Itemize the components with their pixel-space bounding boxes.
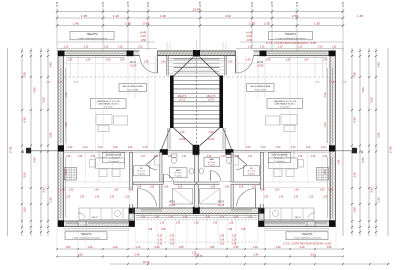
exterior wall top (58, 51, 336, 56)
svg-text:1.35: 1.35 (148, 229, 153, 231)
window line left wall lower (60, 157, 62, 218)
svg-text:3.50: 3.50 (65, 169, 68, 174)
kitchen partition right (260, 153, 263, 209)
kitchen door gap right (260, 190, 264, 205)
exterior step lines bottom right (264, 228, 329, 230)
svg-text:BAIE: BAIE (209, 158, 214, 161)
bath door arc right (210, 171, 220, 181)
svg-text:1.20: 1.20 (294, 197, 299, 199)
svg-text:1.20: 1.20 (125, 197, 130, 199)
dimension line left col 4 (40, 48, 42, 236)
svg-text:P: repartizat: P: repartizat (275, 160, 285, 163)
svg-text:0.90: 0.90 (155, 217, 160, 219)
svg-text:0.30: 0.30 (170, 236, 175, 238)
sink right (199, 168, 203, 174)
svg-text:1.35: 1.35 (176, 223, 181, 225)
svg-text:1.15: 1.15 (278, 47, 283, 49)
svg-text:1.35: 1.35 (160, 223, 165, 225)
svg-text:A: 1.50 m: A: 1.50 m (248, 170, 256, 173)
svg-text:1.10: 1.10 (113, 14, 119, 18)
kitchen dim line left b (64, 187, 133, 189)
wc door arc right (236, 165, 247, 170)
svg-text:1.15: 1.15 (64, 47, 69, 49)
red dim clusters bottom center (158, 236, 237, 246)
wc door leaf right (236, 156, 247, 165)
svg-text:Pasul: 17x88: Pasul: 17x88 (255, 90, 266, 92)
svg-text:4.40: 4.40 (225, 14, 231, 18)
svg-text:1.47: 1.47 (248, 156, 253, 158)
hatched pantry square right (317, 168, 329, 181)
svg-text:1.40: 1.40 (161, 62, 166, 64)
svg-text:+0.45: +0.45 (246, 31, 253, 35)
sink left (189, 168, 193, 174)
svg-text:0.90: 0.90 (206, 217, 211, 219)
dimension line left col 5 (47, 48, 49, 236)
dashed terrace line center (136, 241, 257, 243)
parapet line left living (64, 63, 167, 65)
svg-text:1.40: 1.40 (113, 245, 119, 249)
svg-text:0.90: 0.90 (220, 217, 225, 219)
bath bottom wall left (133, 182, 196, 185)
svg-text:1.40: 1.40 (276, 245, 282, 249)
svg-text:WC: WC (140, 168, 144, 170)
svg-text:0.95: 0.95 (234, 245, 240, 249)
red rotated numbers right margin (338, 62, 393, 213)
vestibule side wall right (225, 56, 227, 76)
camera de zi box right (267, 99, 303, 109)
svg-text:P: parchet: P: parchet (104, 106, 113, 109)
stair bay wall left lower (167, 128, 169, 150)
svg-text:BALUSTRADA SCARA: BALUSTRADA SCARA (250, 85, 270, 88)
svg-text:2.85: 2.85 (49, 132, 53, 138)
svg-text:0.60: 0.60 (143, 21, 149, 25)
dimension line right col 2 (351, 48, 353, 236)
svg-text:1.15: 1.15 (318, 47, 323, 49)
svg-text:1.45: 1.45 (73, 21, 79, 25)
svg-text:0.30: 0.30 (232, 240, 237, 242)
svg-text:1.90: 1.90 (320, 189, 325, 191)
interior beam lower edge (64, 152, 329, 154)
wc label box left (134, 166, 150, 176)
section marker left (26, 148, 31, 154)
svg-text:1.05: 1.05 (211, 186, 216, 188)
svg-text:1.20: 1.20 (323, 197, 328, 199)
svg-text:1.47: 1.47 (182, 156, 187, 158)
dining chairs right (274, 151, 304, 177)
svg-text:1.15: 1.15 (298, 47, 303, 49)
svg-text:0.30: 0.30 (220, 244, 225, 246)
exterior wall bottom left (58, 221, 135, 227)
svg-text:0.90: 0.90 (183, 217, 188, 219)
svg-text:1.30: 1.30 (314, 21, 320, 25)
svg-text:1.20: 1.20 (143, 147, 148, 149)
svg-text:1.20: 1.20 (95, 197, 100, 199)
svg-text:+0.45: +0.45 (140, 31, 147, 35)
svg-text:0.30: 0.30 (158, 240, 163, 242)
svg-text:1.40: 1.40 (323, 60, 328, 62)
svg-text:x27,5: x27,5 (208, 99, 215, 102)
balustrada scara box right (247, 84, 275, 92)
svg-text:1.50: 1.50 (327, 245, 333, 249)
svg-text:2.90: 2.90 (23, 72, 27, 78)
svg-text:C.T.S. | COTA TROTUAR INCINTA: C.T.S. | COTA TROTUAR INCINTA = -0.50 (266, 41, 316, 45)
svg-text:1.40: 1.40 (300, 245, 306, 249)
red numbers bottom row2 (78, 253, 317, 257)
svg-text:3.50: 3.50 (324, 169, 327, 174)
svg-text:0.95: 0.95 (155, 245, 161, 249)
svg-text:1.20: 1.20 (66, 197, 71, 199)
stair outer diagonal lower left (162, 128, 171, 149)
exterior step lines bottom left (64, 228, 129, 230)
vestibule side wall left (166, 56, 168, 76)
svg-text:CAMERA DE ZI, LOC DE: CAMERA DE ZI, LOC DE (97, 100, 120, 103)
baie label box right (204, 157, 220, 167)
svg-text:3.50: 3.50 (23, 172, 27, 178)
svg-text:BALUSTRADA SCARA: BALUSTRADA SCARA (123, 85, 143, 88)
svg-text:1.20: 1.20 (309, 197, 314, 199)
svg-text:1.47: 1.47 (141, 156, 146, 158)
extension lines top bay (167, 40, 226, 51)
svg-text:1.60: 1.60 (23, 207, 27, 213)
column C2 (127, 51, 134, 57)
svg-text:1.35: 1.35 (229, 223, 234, 225)
column C1 (58, 51, 65, 57)
svg-text:1.20: 1.20 (321, 147, 326, 149)
toilet right (226, 154, 232, 157)
stair cut diagonal lower left (174, 128, 193, 146)
svg-text:4.30: 4.30 (65, 122, 68, 127)
column C17 (225, 149, 233, 155)
svg-text:1.90: 1.90 (60, 189, 65, 191)
svg-text:13.45: 13.45 (193, 7, 201, 11)
kitchen dim line right b (260, 187, 329, 189)
column C7 (329, 145, 335, 151)
zona bucatarie box right (269, 152, 291, 163)
svg-text:1.15: 1.15 (248, 47, 253, 49)
svg-text:17.45: 17.45 (389, 146, 393, 153)
column C13 (259, 221, 265, 227)
column C3 (193, 50, 200, 57)
svg-text:x27,5: x27,5 (179, 99, 186, 102)
svg-text:1.20: 1.20 (323, 156, 328, 158)
kitchen dim line right a (264, 181, 329, 183)
svg-text:CAMERA DE ZI, LOC DE: CAMERA DE ZI, LOC DE (273, 100, 296, 103)
svg-text:1.90: 1.90 (275, 189, 280, 191)
svg-text:1.90: 1.90 (260, 189, 265, 191)
svg-text:4.05: 4.05 (361, 87, 365, 93)
svg-text:2.55: 2.55 (292, 14, 298, 18)
svg-text:+0.05: +0.05 (130, 64, 137, 68)
svg-text:1.35: 1.35 (161, 229, 166, 231)
red numbers above section beam (68, 147, 326, 149)
dining table left (96, 158, 125, 169)
red dim row under top wall (68, 60, 328, 64)
bath bottom wall right (197, 182, 260, 185)
exterior step lines center (136, 215, 257, 217)
svg-text:1.40: 1.40 (286, 60, 291, 62)
svg-text:19.45: 19.45 (143, 260, 150, 264)
extension verticals bottom (57, 215, 336, 249)
svg-text:4.95: 4.95 (338, 159, 341, 164)
svg-text:+0.05: +0.05 (257, 64, 264, 68)
svg-text:1.35: 1.35 (249, 21, 255, 25)
svg-text:0.30: 0.30 (170, 244, 175, 246)
window line right wall lower (332, 157, 334, 218)
hatched porch band top center (158, 51, 236, 56)
dashed step line center (136, 219, 257, 221)
svg-text:A: 1.50 m: A: 1.50 m (138, 170, 146, 173)
svg-text:2.90: 2.90 (353, 72, 357, 78)
svg-text:4.30: 4.30 (65, 92, 68, 97)
svg-text:-0.10: -0.10 (246, 34, 252, 38)
svg-text:0.30: 0.30 (158, 244, 163, 246)
svg-text:1.90: 1.90 (94, 189, 99, 191)
svg-text:1.40: 1.40 (88, 245, 94, 249)
kitchen door gap left (129, 190, 133, 205)
kitchen counter left (79, 208, 133, 220)
svg-text:1.20: 1.20 (91, 156, 96, 158)
svg-text:2.35: 2.35 (377, 197, 381, 203)
svg-text:1.75: 1.75 (192, 253, 197, 255)
svg-text:TREAPTA: TREAPTA (81, 233, 92, 236)
closet right of party wall (200, 189, 220, 205)
column C14 (193, 207, 200, 214)
window line left wall (60, 68, 62, 143)
svg-text:1.40: 1.40 (304, 60, 309, 62)
svg-text:8.55: 8.55 (42, 97, 46, 103)
kitchen door leaf right (254, 189, 256, 208)
svg-text:0.90: 0.90 (234, 217, 239, 219)
svg-text:1.35: 1.35 (194, 223, 199, 225)
red rotated dims inside living (65, 92, 327, 127)
svg-text:1.05: 1.05 (239, 186, 244, 188)
column C16 (160, 149, 168, 155)
wc sink right (233, 156, 238, 165)
svg-text:-0.50: -0.50 (246, 38, 252, 42)
svg-text:P: gresie: P: gresie (138, 174, 145, 176)
svg-text:1.40: 1.40 (228, 62, 233, 64)
red dim rows terrace (148, 223, 246, 231)
svg-text:C.T.S. | COTA TROTUAR INCINTA: C.T.S. | COTA TROTUAR INCINTA = -0.50 (283, 242, 332, 246)
svg-text:+0.05: +0.05 (169, 203, 176, 207)
svg-text:1.35: 1.35 (81, 14, 87, 18)
svg-text:1.40: 1.40 (246, 60, 251, 62)
dining chairs left (90, 151, 121, 177)
bath door gap left (163, 182, 175, 185)
dimension line left col 1 (7, 48, 9, 236)
svg-text:1.20: 1.20 (78, 156, 83, 158)
section marker right (352, 148, 357, 154)
entrance door right arc (236, 56, 254, 74)
dimension line left col 3 (30, 48, 32, 236)
kitchen extension verticals (71, 153, 322, 183)
svg-text:BAIE: BAIE (176, 169, 181, 172)
bath door leaf left (163, 174, 165, 185)
svg-text:1.45: 1.45 (377, 62, 381, 68)
red dim row bath top (65, 156, 328, 174)
stair bay wall right lower (224, 128, 226, 150)
svg-text:3.50: 3.50 (78, 253, 84, 257)
window sill top wall right (268, 56, 327, 58)
parapet line right living (226, 63, 329, 65)
bath door leaf right (209, 171, 211, 181)
svg-text:0.30: 0.30 (170, 240, 175, 242)
window sill top wall left (66, 56, 125, 58)
svg-text:1.05: 1.05 (252, 186, 257, 188)
tick marks left dimension cols (21, 50, 49, 233)
svg-text:4.30: 4.30 (324, 92, 327, 97)
kitchen door arc right (236, 189, 255, 207)
entrance door left arc (140, 56, 158, 74)
dashed beam line left living (64, 76, 170, 78)
dining table right (269, 158, 298, 169)
svg-text:12.35: 12.35 (297, 1, 299, 7)
kitchen outside door left (77, 221, 79, 227)
svg-text:1.15: 1.15 (104, 47, 109, 49)
door opening top left (140, 50, 158, 56)
svg-text:A: 3.96 m: A: 3.96 m (174, 172, 182, 175)
dimension line left col 2 (21, 48, 23, 236)
window line right wall (332, 68, 334, 143)
sofa left unit (96, 115, 112, 125)
stair outer diagonal lower right (223, 128, 232, 149)
TREAPTA label box bottom left (65, 232, 107, 240)
dimension line top row 1 (57, 11, 343, 13)
baie label box left (170, 168, 188, 178)
svg-text:TREAPTA: TREAPTA (285, 33, 297, 36)
svg-text:1.10: 1.10 (136, 245, 142, 249)
stair landing lines (167, 57, 226, 59)
svg-text:1.20: 1.20 (279, 197, 284, 199)
svg-text:1.20: 1.20 (311, 156, 316, 158)
red numbers above top wall (64, 47, 337, 49)
dimension line top row 3 (57, 25, 343, 27)
svg-text:3.95: 3.95 (370, 187, 374, 193)
svg-text:7. trepte antiderapante de ext: 7. trepte antiderapante de exterior (293, 237, 322, 240)
red dimension numbers top row3 (73, 21, 320, 25)
column C9 (329, 220, 335, 226)
kitchen counter right (260, 208, 314, 220)
line under treapta boxes (57, 41, 155, 43)
svg-text:-0.50: -0.50 (140, 38, 146, 42)
svg-text:1.20: 1.20 (110, 197, 115, 199)
svg-text:12.35: 12.35 (148, 1, 150, 7)
svg-text:TREAPTA: TREAPTA (86, 33, 98, 36)
svg-text:1.60: 1.60 (353, 207, 357, 213)
interior extension lines living (67, 56, 327, 150)
svg-text:17.45: 17.45 (9, 146, 13, 153)
svg-text:0.30: 0.30 (158, 236, 163, 238)
dimension line right col 1 (342, 48, 344, 236)
svg-text:1.40: 1.40 (144, 62, 149, 64)
exterior wall left (58, 51, 64, 227)
svg-text:1.40: 1.40 (125, 21, 131, 25)
svg-text:1.15: 1.15 (84, 47, 89, 49)
exterior wall step right (259, 208, 265, 227)
red rotated numbers left margin (9, 62, 53, 213)
svg-text:8.55: 8.55 (370, 97, 374, 103)
svg-text:12.35: 12.35 (57, 1, 59, 7)
stair center divider (196, 57, 198, 149)
wc wall vertical left (160, 153, 162, 209)
svg-text:4.30: 4.30 (324, 122, 327, 127)
camera de zi box left (91, 99, 127, 109)
column C6 (58, 145, 64, 151)
svg-text:1.40: 1.40 (120, 60, 125, 62)
window bottom center wall (141, 208, 162, 210)
svg-text:4.95: 4.95 (361, 157, 365, 163)
svg-text:4.30: 4.30 (353, 117, 357, 123)
svg-text:1.20: 1.20 (298, 156, 303, 158)
stair cut diagonal lower right (200, 128, 219, 146)
dimension line bottom row 3 (110, 263, 390, 265)
svg-text:1.20: 1.20 (180, 131, 185, 134)
TREAPTA label box left (70, 32, 114, 40)
svg-text:1.47: 1.47 (235, 156, 240, 158)
svg-text:AP 02: AP 02 (92, 216, 98, 219)
kitchen partition left (130, 153, 133, 209)
exterior wall step left (129, 208, 135, 227)
svg-text:1.15: 1.15 (138, 47, 143, 49)
kitchen door arc left (138, 189, 157, 207)
exterior wall bottom right (259, 221, 336, 227)
svg-text:12.35: 12.35 (252, 1, 254, 7)
svg-text:2.40: 2.40 (254, 253, 260, 257)
dimension line above top wall (57, 48, 157, 50)
svg-text:1.20: 1.20 (68, 147, 73, 149)
red dim row kitchen (60, 189, 333, 191)
section line A-A (28, 150, 357, 152)
svg-text:Pasul: 17x88: Pasul: 17x88 (127, 90, 138, 92)
wc door leaf left (147, 156, 158, 165)
dimension line right col 5 (375, 48, 377, 236)
svg-text:1.90: 1.90 (294, 189, 299, 191)
TREAPTA label box bottom right (286, 232, 328, 240)
svg-text:3.50: 3.50 (311, 253, 317, 257)
svg-text:1.90: 1.90 (69, 189, 74, 191)
svg-text:1.20: 1.20 (83, 147, 88, 149)
stair shaft wall right (219, 76, 223, 129)
svg-text:-0.10: -0.10 (140, 34, 146, 38)
svg-text:1.15: 1.15 (260, 47, 265, 49)
svg-text:WC: WC (250, 168, 254, 170)
bath door gap right (220, 182, 231, 185)
svg-text:12.35: 12.35 (343, 1, 345, 7)
svg-text:3.95: 3.95 (42, 187, 46, 193)
kitchen dim line left a (64, 181, 129, 183)
column C8 (58, 220, 64, 226)
tick marks bottom rows (56, 248, 389, 265)
svg-text:1.47: 1.47 (154, 156, 159, 158)
closet left of party wall (173, 189, 193, 205)
svg-text:1.40: 1.40 (106, 60, 111, 62)
wc door arc left (146, 165, 157, 170)
zona bucatarie box left (103, 152, 125, 163)
red dimension numbers top row2 (81, 14, 363, 18)
svg-text:1.75: 1.75 (198, 256, 203, 258)
svg-text:1.40: 1.40 (266, 60, 271, 62)
entrance door left leaf (156, 56, 158, 74)
stair cut diagonal upper right (200, 57, 220, 76)
svg-text:7. trepte antiderapante de ext: 7. trepte antiderapante de exterior (275, 37, 305, 40)
svg-text:1.05: 1.05 (225, 186, 230, 188)
svg-text:2.40: 2.40 (135, 253, 141, 257)
sofa right unit (281, 115, 297, 125)
svg-text:7. trepte antiderapante de ext: 7. trepte antiderapante de exterior (77, 37, 107, 40)
svg-text:7. trepte antiderapante de ext: 7. trepte antiderapante de exterior (72, 237, 101, 240)
svg-text:P: gresie: P: gresie (208, 165, 215, 167)
hatched pantry square left (65, 168, 77, 181)
